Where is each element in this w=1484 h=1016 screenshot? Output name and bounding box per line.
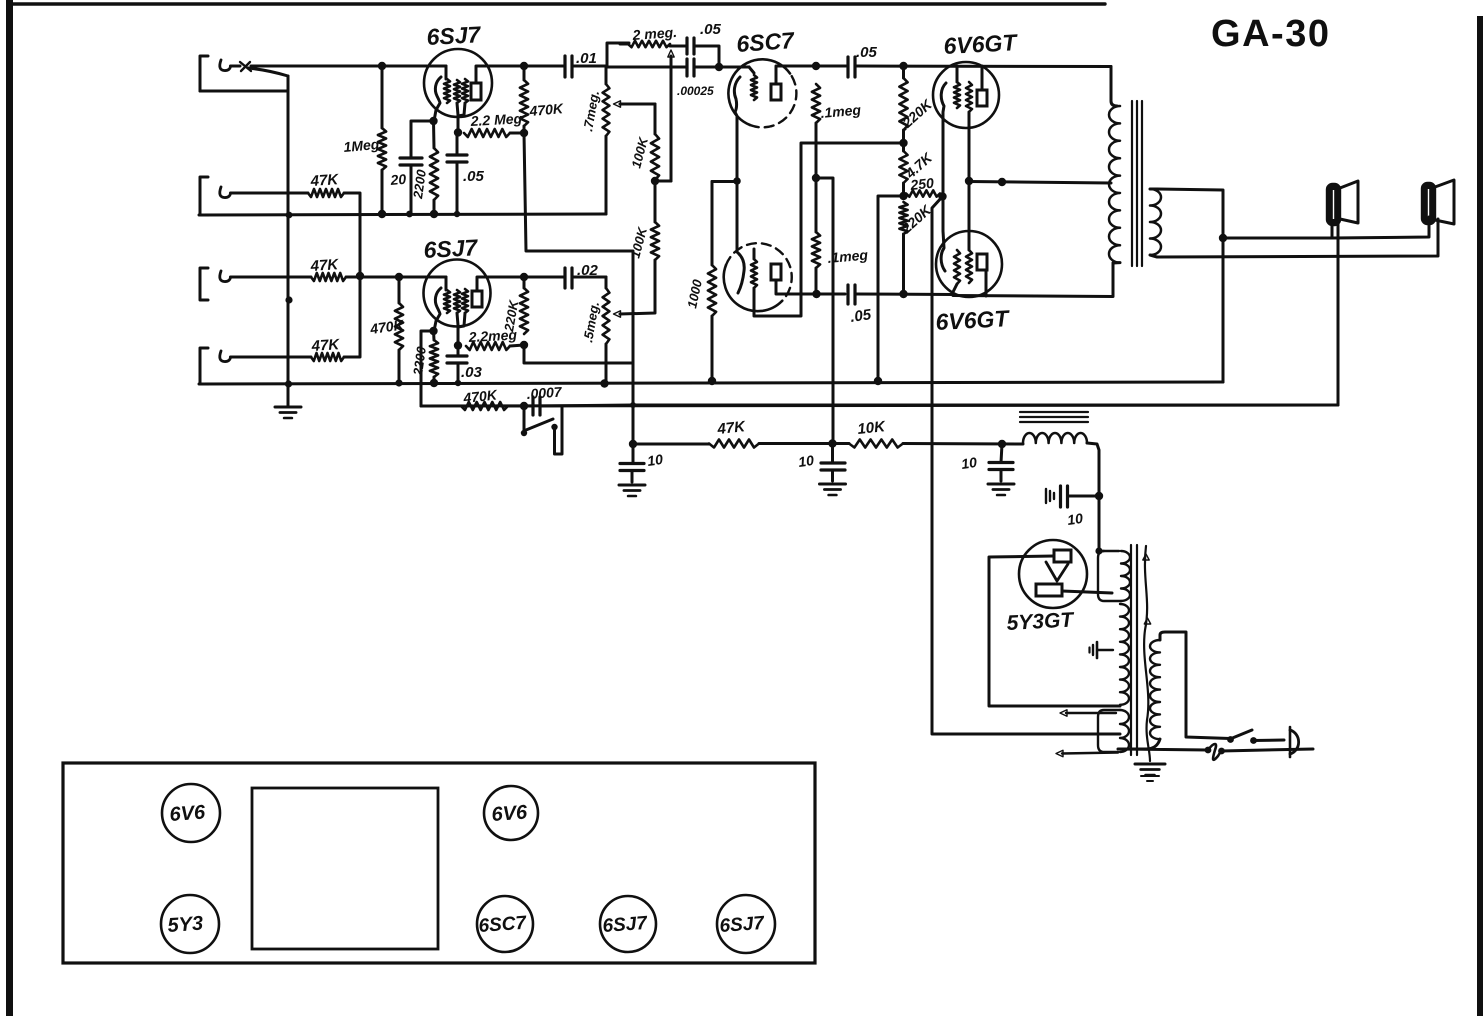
- svg-text:47K: 47K: [716, 418, 747, 438]
- V4 control grid: [954, 82, 960, 108]
- svg-text:6V6GT: 6V6GT: [935, 305, 1011, 335]
- power transformer shield: [1143, 546, 1151, 761]
- label .05 tone: [700, 21, 722, 38]
- node rectifier output: [1095, 547, 1102, 554]
- wire cathode to feedback: [421, 331, 434, 406]
- wire filter row 1: [633, 443, 709, 446]
- node B+ second filter junction: [828, 439, 836, 447]
- wiper arrow 2 meg: [668, 50, 674, 181]
- ground symbol filter 3: [988, 484, 1014, 495]
- wire .01 to 2meg riser: [607, 43, 629, 66]
- input jack J4 bracket: [200, 348, 208, 384]
- V2 control grid: [444, 290, 450, 313]
- node screens junction: [965, 177, 973, 185]
- node cathodes junction 6SC7: [733, 177, 741, 185]
- capacitor 10 rectifier output: [1046, 486, 1099, 507]
- svg-text:10: 10: [1066, 510, 1084, 528]
- ground symbol power transformer: [1135, 764, 1165, 781]
- V2 grid lead: [445, 277, 448, 290]
- wiper 250 to heater CT: [932, 197, 1120, 735]
- resistor 1 Meg grid leak V1: [378, 66, 386, 214]
- wire 22meg to 220K: [510, 345, 524, 346]
- node J1 1meg junction: [378, 62, 386, 70]
- svg-text:2.2 Meg: 2.2 Meg: [469, 110, 523, 129]
- svg-text:5Y3GT: 5Y3GT: [1006, 608, 1076, 635]
- capacitor .05 screen bypass V1: [447, 132, 467, 214]
- wire plate to .05 coupling lower: [817, 293, 846, 296]
- V5 cathode: [941, 197, 945, 271]
- label .03 V2: [461, 364, 483, 381]
- svg-text:6V6GT: 6V6GT: [943, 29, 1019, 59]
- resistor 100K lower: [651, 181, 659, 260]
- label 100K upper: [628, 134, 651, 169]
- svg-text:10: 10: [797, 452, 815, 470]
- capacitor .00025 coupling: [607, 59, 749, 76]
- svg-text:.05: .05: [856, 44, 878, 61]
- ground symbol filter 1: [619, 485, 645, 496]
- chassis socket 5Y3: [161, 895, 219, 953]
- input jack J1 tip contact: [220, 60, 231, 71]
- capacitor 20 cathode bypass: [400, 158, 422, 165]
- potentiometer 250 hum balance: [906, 190, 940, 196]
- wire primary top to switch: [1160, 632, 1230, 739]
- chassis socket 6V6 left: [162, 784, 220, 842]
- svg-text:6SJ7: 6SJ7: [423, 234, 479, 263]
- input jack J2 tip contact: [220, 187, 231, 198]
- label 6SJ7 V1: [426, 21, 482, 50]
- node 220K bottom junction: [520, 341, 528, 349]
- chassis socket 6SC7: [477, 896, 533, 952]
- fuse: [1205, 744, 1225, 760]
- label .01: [576, 50, 597, 67]
- svg-text:6SJ7: 6SJ7: [602, 913, 649, 937]
- svg-text:6SJ7: 6SJ7: [719, 913, 766, 937]
- power transformer primary winding: [1150, 640, 1160, 739]
- wire 2.2meg to 470K: [510, 132, 524, 135]
- capacitor 10 filter 3: [989, 444, 1013, 481]
- ground symbol filter 2: [820, 484, 846, 495]
- resistor 470K grid leak V2: [395, 277, 403, 383]
- V3A grid lead: [749, 67, 754, 73]
- V5 plate: [977, 254, 987, 270]
- resistor 2200 cathode V1: [430, 121, 438, 214]
- wire 100K to .5meg wiper: [614, 260, 656, 317]
- border frame left bar: [6, 0, 13, 1016]
- node V1 plate junction: [520, 62, 528, 70]
- label 47K (input 4): [310, 336, 341, 355]
- tube V3B 6SC7 envelope: [724, 243, 792, 311]
- wiper arrow .7meg: [614, 101, 656, 134]
- capacitor .05 coupling upper: [848, 57, 855, 77]
- capacitor .03 screen bypass V2: [447, 345, 467, 383]
- input jack J3 tip contact: [220, 271, 231, 282]
- svg-text:6SC7: 6SC7: [478, 913, 528, 937]
- V6 plate 2: [1036, 584, 1062, 596]
- V3B plate lead: [776, 280, 816, 294]
- capacitor .01 coupling: [524, 56, 607, 77]
- label 470K grid leak: [368, 316, 405, 337]
- node tail ground junction: [874, 377, 882, 385]
- resistor 2.2 Meg screen feed V1: [464, 129, 510, 137]
- V3A plate: [771, 84, 781, 100]
- node feedback B+ crossing: [630, 402, 636, 408]
- V1 cathode: [434, 77, 441, 121]
- resistor .1meg plate load lower: [812, 178, 820, 294]
- V3A grid: [751, 75, 757, 100]
- wire 20uF to bus: [410, 165, 413, 214]
- node jack1 ground on bus: [286, 212, 293, 219]
- node V1 cathode junction: [429, 117, 437, 125]
- border frame top line: [8, 2, 1105, 5]
- V1 plate: [471, 83, 481, 100]
- wire plate2 to HV top: [1062, 591, 1112, 593]
- V1 screen grid: [454, 80, 460, 132]
- heater lead arrow 1: [1060, 710, 1116, 716]
- V3B grid: [751, 249, 757, 288]
- V1 suppressor grid: [458, 79, 468, 116]
- node .1meg plate junction upper: [812, 62, 820, 70]
- label 20: [389, 171, 407, 188]
- label 220K plate V2: [501, 298, 522, 334]
- V4 cathode: [941, 83, 946, 196]
- svg-text:.0007: .0007: [526, 384, 563, 402]
- border frame right bar: [1477, 16, 1483, 1016]
- svg-text:6V6: 6V6: [169, 801, 207, 825]
- input jack J1 bracket: [200, 56, 208, 91]
- V2 cathode: [434, 288, 441, 331]
- tube V2 6SJ7 envelope: [424, 260, 491, 327]
- wire 20uF to cathode: [411, 121, 433, 158]
- V1 plate lead: [476, 66, 524, 83]
- V3A plate lead: [776, 66, 816, 84]
- resistor 220K grid leak lower: [899, 202, 907, 294]
- speaker SP2: [1422, 180, 1454, 224]
- resistor 470K feedback: [461, 402, 508, 410]
- label .1meg lower: [827, 246, 869, 266]
- label 470K feedback: [462, 386, 499, 406]
- svg-text:.05: .05: [463, 168, 485, 185]
- svg-text:.00025: .00025: [677, 84, 714, 98]
- label 10 filter 3: [960, 454, 978, 472]
- wire choke to rectifier: [1087, 443, 1099, 551]
- tube V6 5Y3GT envelope: [1019, 540, 1087, 608]
- label .02: [577, 262, 599, 279]
- potentiometer 2 meg tone: [620, 41, 670, 47]
- svg-text:5Y3: 5Y3: [167, 913, 204, 937]
- label 1 Meg: [343, 136, 384, 155]
- capacitor 10 filter 1: [620, 444, 644, 482]
- wire plate1 to HV bottom: [989, 556, 1120, 706]
- label 4.7K: [902, 149, 936, 182]
- svg-text:250: 250: [909, 175, 935, 193]
- power transformer core: [1131, 545, 1137, 755]
- node cap4 junction: [1095, 492, 1103, 500]
- wire J1 sleeve curve: [200, 68, 288, 91]
- node 2200 V2 bus junction: [430, 379, 438, 387]
- label 220K lower: [898, 201, 935, 237]
- wire B+ link stage1: [524, 133, 633, 444]
- capacitor 10 filter 2: [821, 444, 845, 482]
- label .05 screen V1: [463, 168, 485, 185]
- node screen to B+ drop: [998, 178, 1006, 186]
- wire plate to .05 coupling upper: [816, 65, 846, 68]
- capacitor .0007 feedback: [508, 397, 633, 415]
- label 6SC7: [736, 27, 796, 57]
- resistor 220K plate load V2: [520, 277, 528, 334]
- wire J3 tip to 47K: [231, 276, 312, 279]
- svg-text:47K: 47K: [309, 171, 340, 190]
- node tone pot ground: [600, 379, 608, 387]
- wire secondary bottom to speakers: [1150, 219, 1438, 257]
- wire 100K junction to 2meg wiper: [655, 180, 671, 183]
- svg-text:.05: .05: [700, 21, 722, 38]
- wire filter row 2: [759, 442, 849, 445]
- wire V5 plate to output transformer: [953, 263, 1113, 297]
- chassis panel outline: [63, 763, 815, 963]
- svg-text:2 meg.: 2 meg.: [631, 24, 677, 43]
- output transformer primary winding: [1109, 67, 1120, 264]
- wire .1meg junction to B+ drop: [816, 178, 833, 444]
- label 2 meg: [631, 24, 677, 43]
- label .0007: [526, 384, 563, 402]
- node 1000 bus junction: [708, 377, 716, 385]
- label 5Y3GT: [1006, 608, 1076, 635]
- V1 control grid: [444, 79, 450, 103]
- V1 grid lead: [445, 66, 448, 79]
- resistor 47K (input 3): [311, 273, 346, 281]
- node 100K junction: [651, 177, 659, 185]
- svg-text:6SJ7: 6SJ7: [426, 21, 482, 50]
- resistor 47K (input 2): [308, 189, 344, 197]
- node screen network junction V1: [454, 128, 462, 136]
- svg-text:.01: .01: [576, 50, 597, 67]
- node 220K grid junction upper: [899, 62, 907, 70]
- svg-text:6V6: 6V6: [491, 801, 529, 825]
- label 2.2 Meg: [469, 110, 523, 129]
- node 2200 bus junction: [430, 210, 438, 218]
- svg-text:.05: .05: [849, 306, 873, 326]
- label 6SJ7 V2: [423, 234, 479, 263]
- node V2 cathode junction: [429, 327, 437, 335]
- svg-text:470K: 470K: [528, 100, 565, 119]
- capacitor .02 coupling: [524, 268, 606, 288]
- output transformer core: [1132, 101, 1142, 266]
- wire J1 tip to V1 grid: [231, 65, 447, 68]
- svg-text:47K: 47K: [309, 256, 340, 275]
- ground bus main: [199, 382, 1223, 384]
- svg-text:.03: .03: [461, 364, 483, 381]
- label .05 coupling upper: [856, 44, 878, 61]
- node .1meg center junction: [812, 174, 820, 182]
- node jack ground symbol junction: [285, 380, 292, 387]
- wire feedback row to speaker: [633, 404, 1338, 407]
- crossover X mark on J1 wire: [240, 62, 251, 71]
- svg-text:47K: 47K: [310, 336, 341, 355]
- wire cathode to 1000: [712, 180, 737, 183]
- svg-text:6SC7: 6SC7: [736, 27, 796, 57]
- node B+ first filter junction: [629, 440, 637, 448]
- label 100K lower: [627, 224, 650, 259]
- node speaker feed junction: [1219, 234, 1227, 242]
- label .7meg: [580, 89, 602, 132]
- wire tail to ground bus: [878, 196, 904, 381]
- label 2200 V2: [410, 345, 429, 377]
- heater lead arrow 2: [1056, 750, 1118, 756]
- V2 screen grid: [454, 290, 460, 345]
- wire primary bottom to fuse: [1118, 739, 1208, 750]
- label 6V6GT upper: [943, 29, 1019, 59]
- wire speaker line hot: [1223, 217, 1429, 238]
- wire .05 to 6V6 grid lower: [855, 293, 953, 297]
- resistor 4.7K divider: [899, 143, 907, 196]
- title GA-30: [1211, 13, 1329, 55]
- wire J4 tip to 47K: [231, 356, 312, 359]
- node screen network junction V2: [454, 341, 462, 349]
- wire switch to plug: [1254, 739, 1285, 743]
- potentiometer .5meg volume 2: [603, 277, 610, 384]
- node 470K bottom junction: [520, 129, 528, 137]
- output transformer secondary winding: [1150, 189, 1161, 255]
- label .1meg upper: [820, 101, 862, 121]
- node input mix junction: [356, 272, 364, 280]
- label 2200 V1: [410, 168, 429, 200]
- svg-text:10: 10: [960, 454, 978, 472]
- wire feedback from speaker: [421, 224, 1338, 406]
- node 1meg bus junction: [378, 210, 386, 218]
- potentiometer .7meg volume: [603, 66, 610, 214]
- resistor 2200 cathode V2: [430, 331, 438, 383]
- resistor .1meg plate load upper: [812, 84, 820, 178]
- V4 grid lead: [956, 66, 959, 82]
- V2 plate: [472, 291, 482, 307]
- label 47K filter: [716, 418, 747, 438]
- chassis socket 6SJ7 b: [717, 895, 775, 953]
- V5 plate lead: [985, 270, 988, 296]
- wire .05 to 6V6 grid upper: [855, 65, 1111, 69]
- V4 plate lead: [981, 66, 984, 90]
- remote cutoff switch: [521, 406, 562, 454]
- input jack J4 tip contact: [220, 351, 231, 362]
- V4 screen grid: [966, 82, 972, 181]
- resistor 1000 cathode 6SC7: [708, 182, 716, 382]
- node 20uF bus junction: [406, 211, 413, 218]
- node B+ third filter junction: [998, 440, 1006, 448]
- node 220K grid junction lower: [899, 290, 907, 298]
- power transformer 5V winding: [1098, 551, 1130, 601]
- chassis speaker cutout: [252, 788, 438, 949]
- V6 plate 1: [1054, 550, 1071, 562]
- label 10K filter: [857, 418, 887, 438]
- svg-text:10K: 10K: [857, 418, 887, 438]
- V4 plate: [977, 90, 987, 106]
- power transformer 6.3V winding: [1098, 710, 1129, 752]
- node .03 ground junction: [455, 380, 461, 386]
- V3B grid lead: [754, 143, 904, 316]
- capacitor .05 coupling lower: [848, 285, 855, 304]
- V2 plate lead: [477, 277, 524, 291]
- resistor 47K (input 4): [311, 353, 344, 361]
- V3B cathode: [737, 181, 744, 293]
- V3B plate: [771, 264, 781, 280]
- node .05 bus junction: [454, 211, 460, 217]
- input jack J2 bracket: [200, 177, 208, 215]
- resistor 470K plate load V1: [520, 66, 528, 133]
- choke core: [1020, 412, 1088, 422]
- wire fuse to plug: [1221, 749, 1313, 751]
- label .220K: [896, 96, 935, 133]
- tube V1 6SJ7 envelope: [424, 49, 492, 117]
- node jack3 arm junction: [285, 296, 292, 303]
- ground symbol input jacks: [275, 384, 301, 418]
- svg-text:20: 20: [389, 171, 407, 188]
- svg-text:.02: .02: [577, 262, 599, 279]
- label 250: [909, 175, 935, 193]
- wire 47K input4 riser: [344, 276, 360, 357]
- wire J2 tip to 47K: [231, 192, 309, 195]
- label .00025: [677, 84, 714, 98]
- speaker SP1: [1327, 181, 1358, 225]
- chassis socket 6SJ7 a: [600, 896, 656, 952]
- wire filter row 3: [903, 442, 1023, 446]
- V3A cathode: [734, 77, 740, 181]
- resistor 100K upper: [651, 134, 659, 180]
- node V2 plate junction: [520, 273, 528, 281]
- label .5meg: [580, 300, 602, 343]
- node .1meg lower plate junction: [812, 290, 820, 298]
- node 470K grid leak junction: [395, 273, 403, 281]
- V5 control grid: [953, 250, 960, 295]
- label 6V6GT lower: [935, 305, 1011, 335]
- wire secondary top to junction: [1150, 189, 1223, 382]
- node switch junction: [520, 402, 528, 410]
- label 22meg: [467, 326, 517, 345]
- tube V5 6V6GT envelope: [936, 231, 1002, 297]
- label 47K (input 3): [309, 256, 340, 275]
- resistor 22meg screen feed V2: [466, 342, 510, 350]
- V6 filament: [1046, 562, 1068, 581]
- tube V4 6V6GT envelope: [933, 62, 999, 128]
- svg-text:10: 10: [646, 451, 664, 469]
- label 10 rectifier cap: [1066, 510, 1084, 528]
- power transformer HV center tap ground: [1090, 642, 1114, 658]
- label 47K (input 2): [309, 171, 340, 190]
- node divider junction: [899, 139, 907, 147]
- node tail junction: [899, 192, 907, 200]
- wire jack ground vertical: [287, 76, 290, 384]
- node 6SC7 grid wire junction: [715, 63, 723, 71]
- chassis socket 6V6 right: [484, 786, 538, 840]
- resistor 220K divider upper: [899, 66, 907, 143]
- wire B+ link stage2: [524, 345, 633, 363]
- node 470K ground junction: [395, 379, 402, 386]
- tube V3A 6SC7 envelope: [728, 59, 796, 127]
- V5 screen grid: [966, 181, 972, 283]
- resistor 10K filter: [849, 440, 903, 448]
- label 10 filter 2: [797, 452, 815, 470]
- power transformer HV winding: [1120, 604, 1129, 705]
- label 10 filter 1: [646, 451, 664, 469]
- resistor 47K filter: [709, 440, 759, 448]
- capacitor .05 tone: [670, 38, 719, 67]
- choke winding: [1023, 433, 1087, 443]
- node 250 right junction: [938, 192, 946, 200]
- ground bus of input stage: [199, 214, 606, 215]
- wire J3 to V2 grid: [346, 276, 446, 279]
- V2 suppressor grid: [458, 289, 468, 327]
- label .05 coupling lower: [849, 306, 873, 326]
- power switch: [1227, 730, 1257, 744]
- power plug: [1290, 727, 1299, 757]
